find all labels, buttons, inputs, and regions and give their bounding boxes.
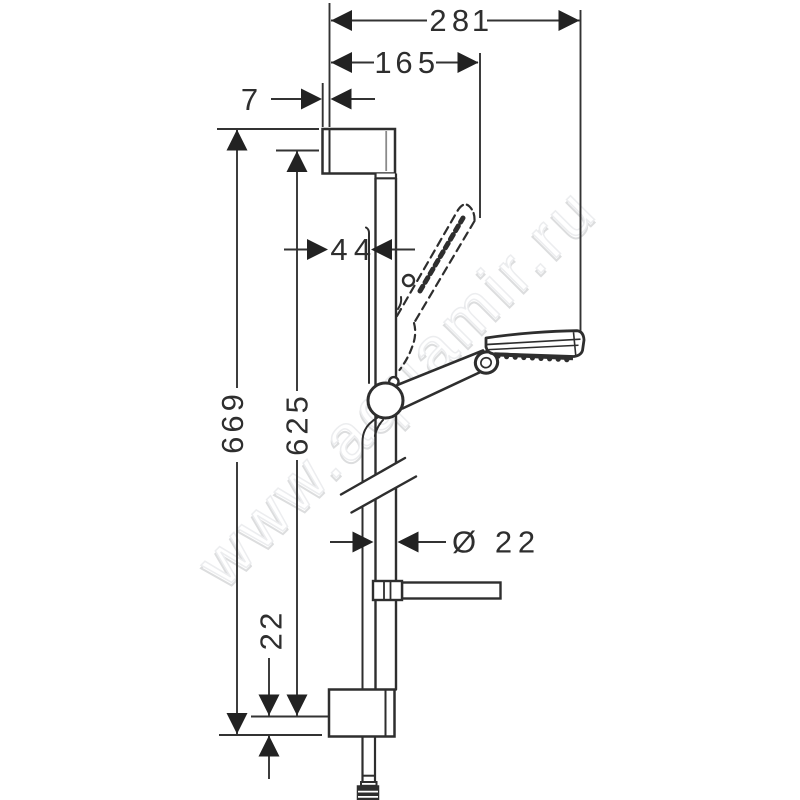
- svg-text:4: 4: [354, 232, 371, 267]
- svg-text:2: 2: [495, 525, 512, 560]
- svg-text:1: 1: [374, 45, 391, 80]
- svg-text:7: 7: [241, 82, 258, 117]
- svg-text:9: 9: [215, 394, 250, 411]
- svg-text:2: 2: [254, 633, 289, 650]
- svg-text:1: 1: [472, 3, 489, 38]
- svg-text:5: 5: [418, 45, 435, 80]
- svg-text:2: 2: [280, 417, 315, 434]
- svg-text:6: 6: [280, 439, 315, 456]
- svg-text:8: 8: [452, 3, 469, 38]
- svg-text:2: 2: [518, 525, 535, 560]
- svg-text:6: 6: [215, 415, 250, 432]
- svg-text:4: 4: [330, 232, 347, 267]
- svg-text:Ø: Ø: [452, 525, 476, 560]
- svg-text:2: 2: [429, 3, 446, 38]
- svg-text:6: 6: [215, 437, 250, 454]
- svg-text:5: 5: [280, 396, 315, 413]
- svg-text:6: 6: [395, 45, 412, 80]
- svg-text:2: 2: [254, 613, 289, 630]
